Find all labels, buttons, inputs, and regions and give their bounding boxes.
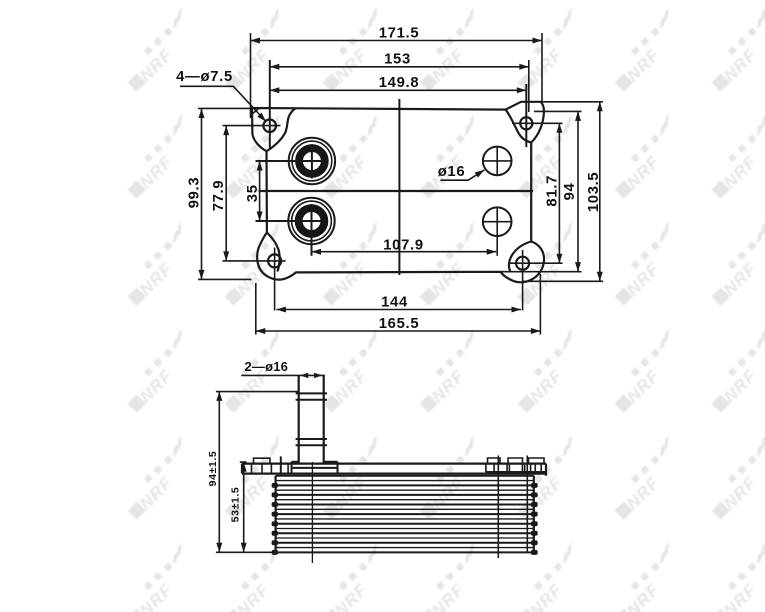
cooler plate stack bbox=[276, 476, 534, 553]
bolt hole bottom-left bbox=[268, 254, 281, 267]
oil port 2 crosshair (extends down as 107.9 extension) bbox=[256, 204, 326, 256]
flange left tab bbox=[254, 458, 271, 463]
dimension 77.9 bbox=[225, 126, 227, 261]
bolt hole top-left bbox=[263, 120, 276, 133]
svg-text:99.3: 99.3 bbox=[187, 177, 203, 209]
dimension 35 bbox=[259, 161, 261, 221]
dimension 99.3 bbox=[198, 108, 252, 279]
svg-text:2—ø16: 2—ø16 bbox=[244, 359, 288, 374]
connection pipe (2-D16) bbox=[299, 376, 324, 464]
dimension 107.9 bbox=[312, 251, 497, 253]
svg-text:144: 144 bbox=[381, 295, 408, 311]
oil port 1 crosshair bbox=[256, 144, 326, 179]
flange right tabs bbox=[488, 458, 545, 463]
pipe axis line bbox=[311, 462, 313, 563]
svg-text:4—ø7.5: 4—ø7.5 bbox=[176, 69, 233, 85]
svg-text:77.9: 77.9 bbox=[211, 180, 227, 212]
oil port 1 threaded bore (dark ring) bbox=[299, 148, 325, 174]
stud pin left of D16 row bbox=[497, 456, 499, 559]
flange post bbox=[280, 456, 282, 475]
oil port 2 (lower) outer circle bbox=[288, 198, 334, 244]
top-left ear inner boundary bbox=[267, 108, 296, 151]
top-right ear inner boundary bbox=[506, 110, 532, 143]
svg-text:149.8: 149.8 bbox=[379, 75, 420, 91]
bottom-right ear inner boundary bbox=[509, 242, 531, 273]
dimension 165.5 bbox=[256, 274, 541, 335]
svg-text:107.9: 107.9 bbox=[383, 237, 424, 253]
oil port 2 threaded bore (dark ring) bbox=[299, 208, 325, 234]
plate vertical centerline bbox=[398, 99, 400, 275]
svg-text:94±1.5: 94±1.5 bbox=[207, 451, 219, 487]
svg-text:53±1.5: 53±1.5 bbox=[230, 487, 242, 523]
svg-text:165.5: 165.5 bbox=[379, 316, 420, 332]
svg-text:81.7: 81.7 bbox=[545, 175, 561, 207]
pipe boss on flange bbox=[292, 462, 338, 474]
dimension 153 bbox=[270, 66, 529, 68]
dimension 171.5 bbox=[251, 33, 543, 118]
pipe bead ring lower bbox=[296, 439, 327, 445]
dimension 149.8 bbox=[270, 89, 527, 91]
plate parting line bbox=[259, 190, 534, 192]
svg-text:171.5: 171.5 bbox=[379, 26, 420, 42]
bottom-left ear inner boundary bbox=[267, 233, 280, 272]
pipe bead ring upper bbox=[296, 393, 327, 399]
dimension 103.5 bbox=[524, 102, 604, 281]
bolt hole bottom-right bbox=[516, 257, 529, 270]
oil cooler top view: plate outline with corner ears bbox=[252, 102, 544, 283]
oil port 1 (upper) outer circle bbox=[289, 138, 335, 184]
stack side edges bbox=[276, 476, 534, 553]
svg-text:103.5: 103.5 bbox=[586, 172, 602, 213]
svg-text:153: 153 bbox=[384, 52, 411, 68]
hole D16 lower bbox=[483, 207, 512, 236]
svg-text:ø16: ø16 bbox=[438, 164, 466, 180]
dimension 81.7 bbox=[558, 123, 560, 263]
svg-text:35: 35 bbox=[245, 184, 261, 202]
dimension 94+-1.5 bbox=[216, 391, 298, 552]
dimension 144 bbox=[276, 309, 521, 311]
dimension 94 bbox=[501, 111, 582, 271]
dimension 53+-1.5 bbox=[240, 462, 247, 552]
top-left corner chamfer bbox=[252, 108, 260, 115]
flange left joint ticks bbox=[252, 465, 289, 474]
stack plate end bulges bbox=[272, 483, 278, 488]
stud pin right bbox=[526, 456, 528, 553]
svg-text:94: 94 bbox=[562, 183, 578, 201]
flange right joint ticks bbox=[486, 463, 546, 473]
hole D16 upper bbox=[483, 147, 512, 176]
side view: flange plate bbox=[242, 464, 546, 476]
bolt hole top-right bbox=[520, 117, 532, 129]
